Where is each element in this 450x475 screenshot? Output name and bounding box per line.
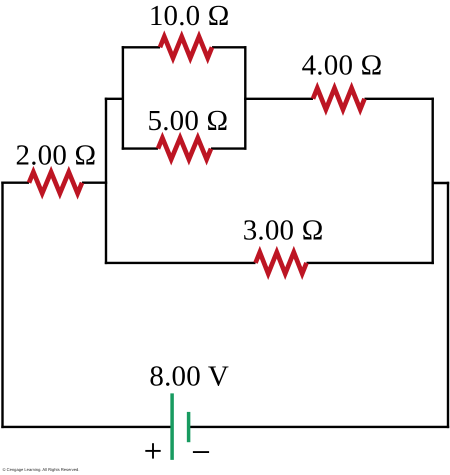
- svg-text:8.00 V: 8.00 V: [149, 360, 229, 392]
- svg-text:2.00 Ω: 2.00 Ω: [16, 140, 97, 172]
- svg-text:10.0 Ω: 10.0 Ω: [149, 0, 230, 32]
- svg-text:5.00 Ω: 5.00 Ω: [148, 105, 229, 137]
- svg-text:3.00 Ω: 3.00 Ω: [243, 215, 324, 247]
- svg-text:4.00 Ω: 4.00 Ω: [302, 50, 383, 82]
- svg-text:© Cengage Learning. All Rights: © Cengage Learning. All Rights Reserved.: [3, 467, 80, 472]
